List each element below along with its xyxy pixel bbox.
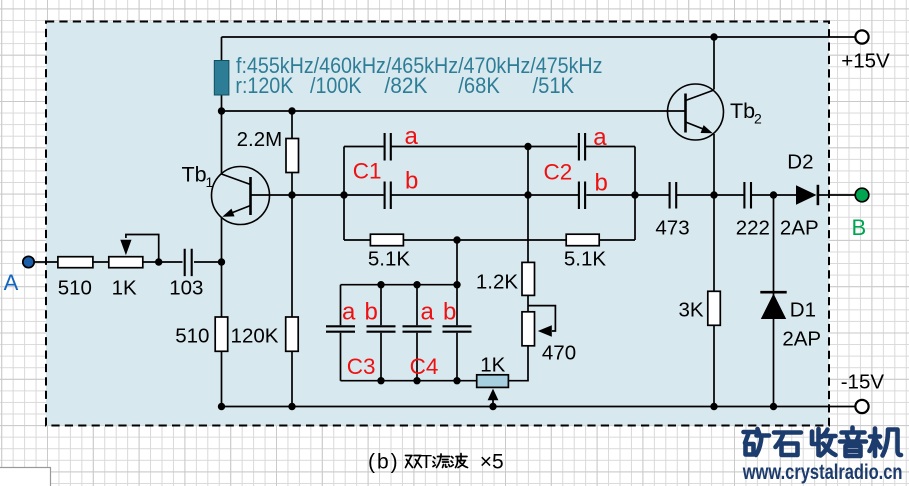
svg-text:A: A [4,270,19,295]
wire: Tb1 emitter down through 510 to ground rail [221,217,223,407]
wire: C1a/C2a top row y=146.5 [344,146,635,148]
wire: input row from A to 103 cap [34,261,183,263]
wire: Tb2 collector riser [713,37,715,90]
wire: main rail C2b to 473 cap [586,194,669,196]
wire: 2.2M / 120K vertical branch [291,111,293,407]
potentiometer 1K (bottom, blue slider) [477,375,509,388]
wire: twin-T bottom rail to 1K pot [341,380,477,382]
diode D2 triangle [796,185,817,205]
capacitor C3 plate pair b (horizontal) [367,326,396,331]
resistor 5.1K (right) [566,234,599,246]
svg-text:r:120K: r:120K [235,73,293,98]
svg-text:+15V: +15V [841,50,890,73]
wire: Tb1 collector rail to Tb2 base [222,110,686,112]
wire: C1 left riser [343,147,345,241]
transistor Tb1 emitter arrowhead [221,209,235,221]
svg-text:D2: D2 [787,151,813,174]
transistor Tb2 emitter stroke [686,122,710,132]
svg-text:2AP: 2AP [782,328,821,351]
capacitor C3 plate pair a (horizontal) [326,326,355,331]
wire: D2 cathode to B terminal [819,194,855,196]
capacitor C2 plate pair a [579,133,585,161]
potentiometer 470 [522,312,535,346]
svg-text:103: 103 [169,277,203,300]
wire: 5.1K junction down to twin-T top rail [456,240,458,285]
svg-text:510: 510 [175,325,209,348]
terminal A (blue) [23,256,34,267]
watermark glyph: 收 [812,429,836,456]
svg-text:b: b [443,299,456,326]
svg-text:B: B [852,215,867,240]
resistor 2.2M [286,139,299,173]
wire: Tb1 collector riser [221,111,223,174]
caption glyph: 波 [451,457,453,467]
wire: 1K pot arrow lead to ground rail [492,400,494,407]
potentiometer 1K (input) [109,257,143,268]
resistor 120K [286,317,299,351]
node: junction dot main rail / 2.2M-120K [288,191,295,198]
wire: teal resistor top lead [221,37,223,61]
wire: 3K branch [713,195,715,407]
terminal -15V (open circle) [855,400,868,413]
svg-text:470: 470 [542,342,576,365]
svg-text:3K: 3K [678,299,703,322]
wire: main rail 222 to D2 anode [752,194,796,196]
wire: 1.2K to 470 pot link [527,295,529,311]
resistor 3K [708,291,721,325]
watermark glyph: 音 [840,428,866,457]
svg-text:a: a [421,299,435,326]
capacitor 473 plates [670,182,677,209]
capacitor C4 plate pair b (horizontal) [443,326,472,331]
node: junction dot 1K pot wiper [155,258,162,265]
capacitor C1 plate pair b [385,182,391,210]
wire: main rail 473 to 222 cap [677,194,744,196]
watermark glyph: 石 [774,433,801,456]
svg-text:473: 473 [655,217,689,240]
terminal +15V (open circle) [855,30,868,43]
svg-text:T: T [421,451,432,472]
wire: 1K pot wiper link [126,235,159,263]
potentiometer 1K wiper arrow [120,240,131,256]
wire: 470 wiper link [528,306,555,331]
transistor Tb1 collector stroke [222,174,251,185]
capacitor 103 plates [185,249,192,276]
transistor Tb2 circle [668,84,724,140]
svg-text:222: 222 [736,217,770,240]
watermark glyph: 机 [870,429,902,457]
svg-text:1.2K: 1.2K [476,271,518,294]
svg-text:C3: C3 [347,354,376,379]
resistor R (teal, frequency-dependent) [214,61,229,96]
node: junction dot main rail / C-mid [524,191,531,198]
wire: main signal rail y=195 segment Tb1 base to C1b [251,194,384,196]
diode D1 cathode bar [760,291,786,294]
svg-text:1: 1 [206,174,214,190]
capacitor C4 plate pair a (horizontal) [403,326,432,331]
resistor 1.2K [522,262,535,295]
wire: 103 cap to Tb1 emitter node [194,261,222,263]
svg-text:/68K: /68K [458,73,500,98]
svg-text:5.1K: 5.1K [368,248,410,271]
transistor Tb1 circle [212,167,270,225]
terminal B (green) [855,188,869,202]
wire: C4a cap leads [416,285,418,381]
svg-text:www.crystalradio.cn: www.crystalradio.cn [742,460,903,484]
transistor Tb2 collector stroke [686,90,715,101]
svg-text:C1: C1 [353,159,382,184]
wire: C3a cap leads [340,285,342,381]
svg-text:510: 510 [58,277,92,300]
wire: C4b cap leads [456,285,458,381]
svg-text:Tb: Tb [182,163,207,187]
svg-text:2.2M: 2.2M [237,128,283,151]
transistor Tb1 emitter stroke [225,206,251,216]
wire: +15V top supply rail [222,36,856,38]
resistor 510 (input series) [58,257,93,268]
capacitor C2 plate pair b [579,182,585,210]
svg-text:1K: 1K [112,277,137,300]
svg-text:/100K: /100K [310,73,362,98]
wire: D1 branch [773,195,775,407]
node: junction dots ground rail [218,403,225,410]
wire: teal resistor bottom lead to collector rail [221,95,223,111]
svg-text:2AP: 2AP [780,217,819,240]
potentiometer 470 wiper arrowhead [538,325,552,337]
svg-text:Tb: Tb [730,99,755,123]
node: junction dot input / Tb1 emitter [218,258,225,265]
svg-text:2: 2 [754,111,762,127]
transistor Tb2 emitter arrowhead [701,125,715,137]
svg-text:a: a [405,123,419,150]
node: junction dots twin-T bottom rail [377,377,384,384]
wire: C3b cap leads [380,285,382,381]
diode D2 cathode bar [817,185,820,205]
svg-text:-15V: -15V [841,371,885,394]
blank white cell box bottom-left [0,468,51,486]
node: junction dot main rail / D1 [770,191,777,198]
caption glyph: 滤 [433,457,435,467]
wire: Tb2 emitter riser [713,134,715,195]
node: junction dots twin-T top rail [377,281,384,288]
watermark glyph: 矿 [744,429,770,455]
node: junction dot collector rail / 2.2M [288,107,295,114]
svg-text:5.1K: 5.1K [564,248,606,271]
circuit canvas (light blue) [46,22,829,426]
svg-text:1K: 1K [480,354,505,377]
wire: centre riser C-mid through rail to 1.2K [527,147,529,263]
node: junction dot C-mid top [524,143,531,150]
wire: twin-T top rail [341,284,458,286]
svg-text:/51K: /51K [533,73,575,98]
capacitor C1 plate pair a [385,133,391,161]
svg-text:C4: C4 [410,354,439,379]
svg-text:a: a [342,299,356,326]
caption glyph: 双 [406,456,413,468]
node: junction dot main rail / Tb2 emitter, 3K [710,191,717,198]
svg-text:120K: 120K [231,325,279,348]
wire: 5.1K feedback row y=240 [344,239,635,241]
wire: 470 pot bottom to 1K pot [508,346,528,381]
resistor 510 (emitter bias) [215,317,228,351]
svg-text:C2: C2 [544,160,573,185]
svg-text:×5: ×5 [480,451,504,474]
transistor Tb2 base bar [684,94,687,133]
node: junction dot collector rail / teal resistor [218,107,225,114]
transistor Tb1 base bar [249,177,252,215]
wire: C2 right riser [634,147,636,241]
svg-text:/82K: /82K [384,73,427,98]
wire: ground / -15V rail [222,406,856,408]
dashed border frame of circuit [46,22,829,426]
potentiometer 1K bottom wiper arrowhead [488,389,499,401]
node: junction dot 5.1K row / twin-T [453,236,460,243]
svg-text:D1: D1 [790,299,816,322]
node: junction dot main rail / C2 right [631,191,638,198]
diode D1 triangle [761,294,786,319]
node: junction dot top rail / Tb2 collector [710,33,717,40]
wire: main rail C1b to C2b [392,194,579,196]
svg-text:b: b [595,170,608,197]
resistor 5.1K (left) [370,234,403,246]
svg-text:a: a [593,124,607,151]
svg-text:b: b [365,299,378,326]
svg-text:(b): (b) [368,451,400,474]
capacitor 222 plates [744,182,751,209]
svg-text:b: b [405,168,418,195]
node: junction dot main rail / C1 left [340,191,347,198]
